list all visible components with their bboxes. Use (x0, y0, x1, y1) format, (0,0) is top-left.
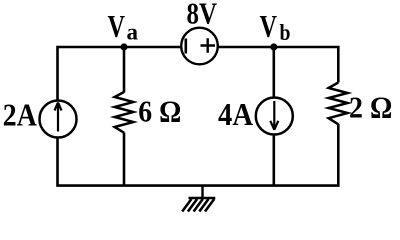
svg-text:V: V (260, 8, 278, 44)
current source I2 4A arrow (270, 101, 278, 130)
voltage source V1 minus terminal bar (185, 39, 188, 54)
resistor R2 2ohm zigzag (329, 83, 348, 125)
svg-text:6 Ω: 6 Ω (138, 94, 181, 129)
svg-text:8V: 8V (187, 0, 218, 31)
ground bar (189, 197, 216, 200)
svg-text:2A: 2A (3, 96, 37, 132)
svg-text:4A: 4A (218, 96, 253, 132)
wire top-right segment and right wire upper (219, 47, 339, 83)
wire Vb branch lower (272, 136, 275, 186)
resistor R1 6ohm zigzag (115, 92, 134, 133)
current source I1 2A circle (40, 101, 77, 138)
voltage source V1 plus sign (201, 38, 216, 52)
wire Vb branch upper (272, 47, 275, 98)
wire top-left segment and left wire upper (58, 47, 182, 100)
node A dot (120, 43, 127, 50)
svg-text:2 Ω: 2 Ω (349, 90, 392, 125)
wire left lower, bottom wire, right lower (58, 124, 339, 186)
ground hatch lines (182, 199, 214, 212)
wire Va branch upper (123, 47, 126, 93)
svg-text:V: V (108, 8, 126, 44)
current source I1 2A arrow (55, 103, 62, 132)
svg-text:b: b (280, 20, 291, 45)
current source I2 4A circle (256, 98, 293, 135)
wire Va branch lower (123, 133, 126, 186)
ground stub (201, 186, 203, 198)
voltage source V1 8V circle (181, 28, 218, 65)
svg-text:a: a (127, 20, 139, 45)
node B dot (270, 43, 277, 50)
